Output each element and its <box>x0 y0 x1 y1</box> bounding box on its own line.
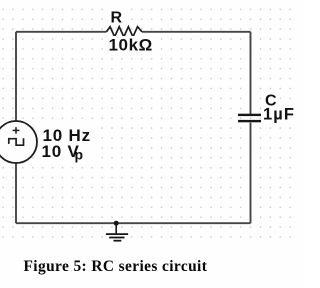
svg-text:1µF: 1µF <box>263 106 295 124</box>
wire left (bottom: V1 minus terminal) <box>15 163 17 223</box>
plus polarity mark <box>13 127 20 134</box>
label 10 Hz <box>40 124 98 162</box>
wire left (top: V1 plus terminal) <box>15 32 17 121</box>
wire right (bottom: from C plate) <box>250 123 252 224</box>
wire top (V1 to R to C) <box>16 31 251 33</box>
value label 10kΩ <box>103 36 158 55</box>
label C <box>261 92 279 109</box>
svg-text:p: p <box>75 146 84 162</box>
junction dot (ground node) <box>114 221 119 226</box>
wire bottom (ground net) <box>16 222 251 224</box>
ground <box>106 223 128 241</box>
svg-text:10kΩ: 10kΩ <box>109 36 153 55</box>
label R <box>105 8 129 27</box>
svg-text:R: R <box>111 10 123 27</box>
voltage source V1 (square-wave source) <box>0 121 37 163</box>
square-wave symbol <box>9 138 24 145</box>
capacitor C <box>238 114 264 123</box>
value label 1µF <box>261 106 299 125</box>
svg-text:Figure 5: RC series circuit: Figure 5: RC series circuit <box>24 258 208 275</box>
resistor R <box>107 27 143 37</box>
value label 10 Vp <box>42 142 84 162</box>
wire right (top: to C plate) <box>250 32 252 114</box>
